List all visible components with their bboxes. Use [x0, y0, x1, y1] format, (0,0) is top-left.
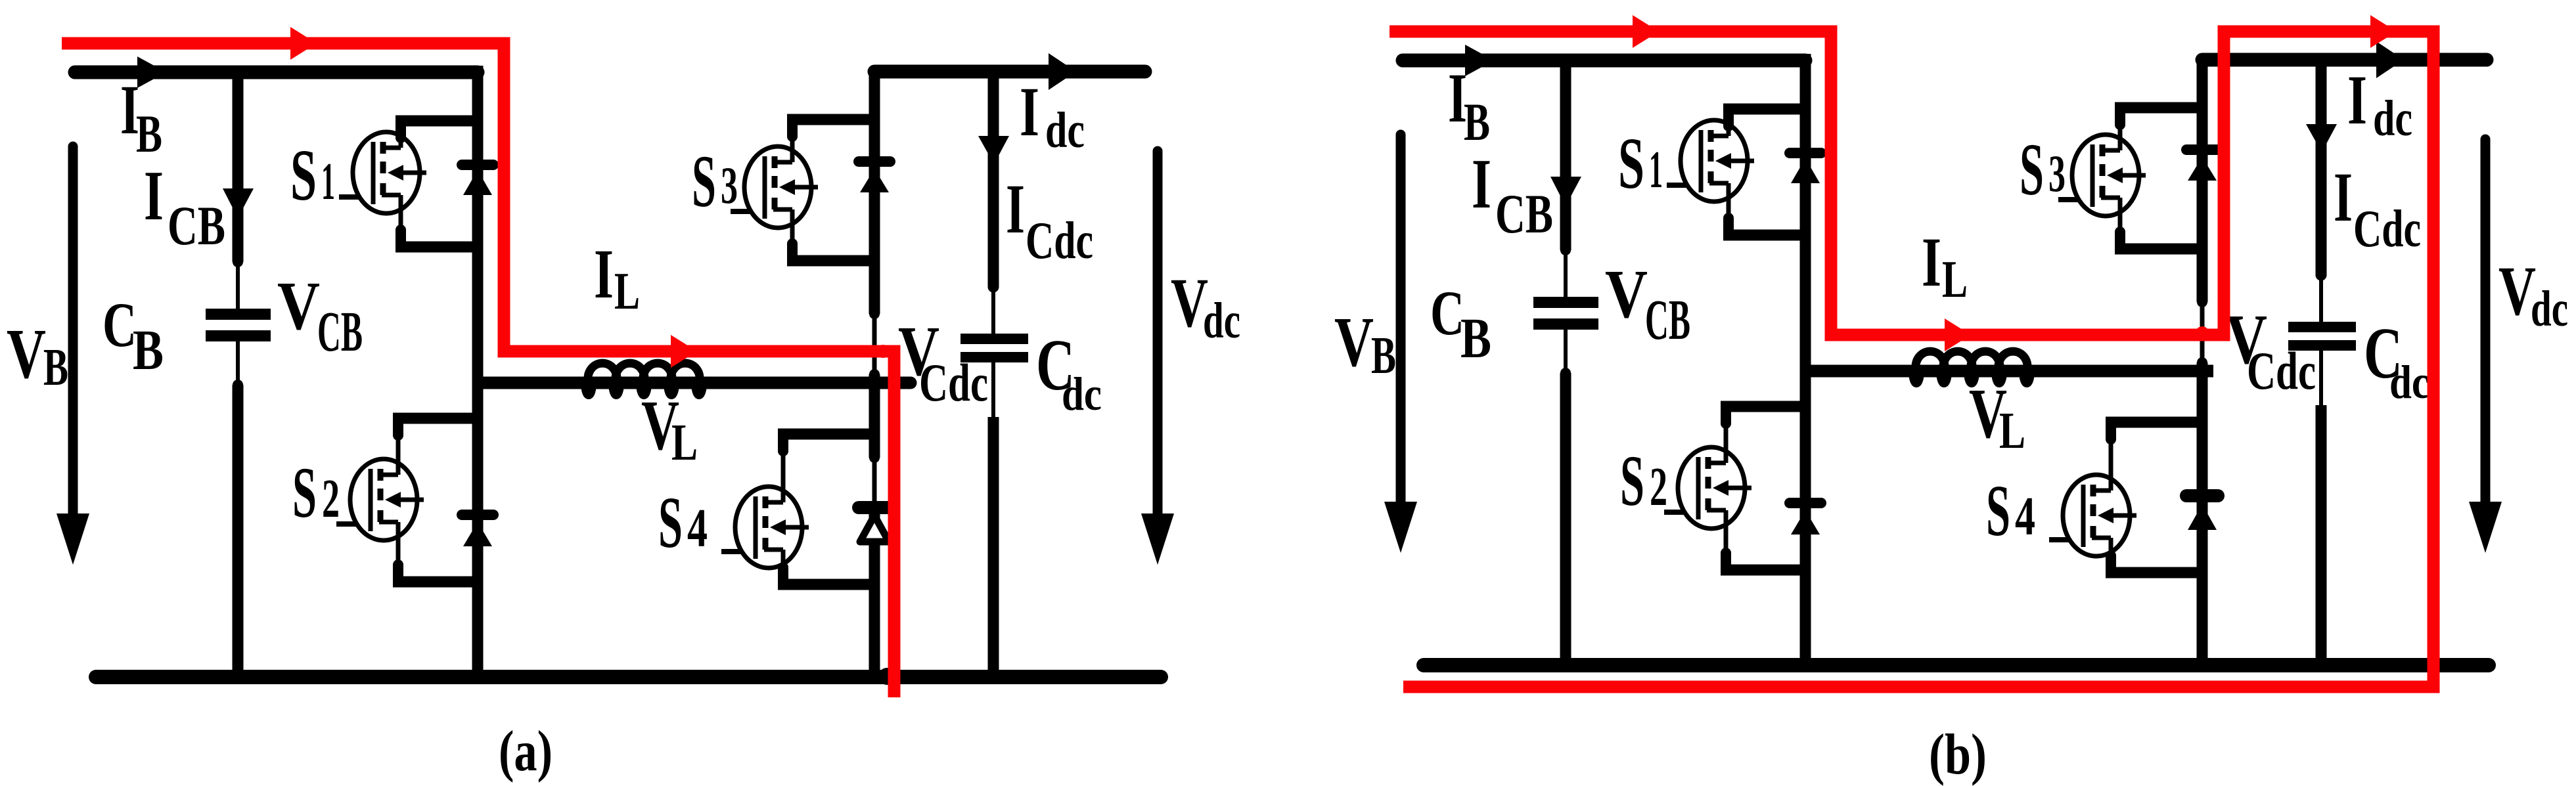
svg-text:(b): (b): [1929, 723, 1987, 786]
svg-text:(a): (a): [499, 720, 553, 783]
